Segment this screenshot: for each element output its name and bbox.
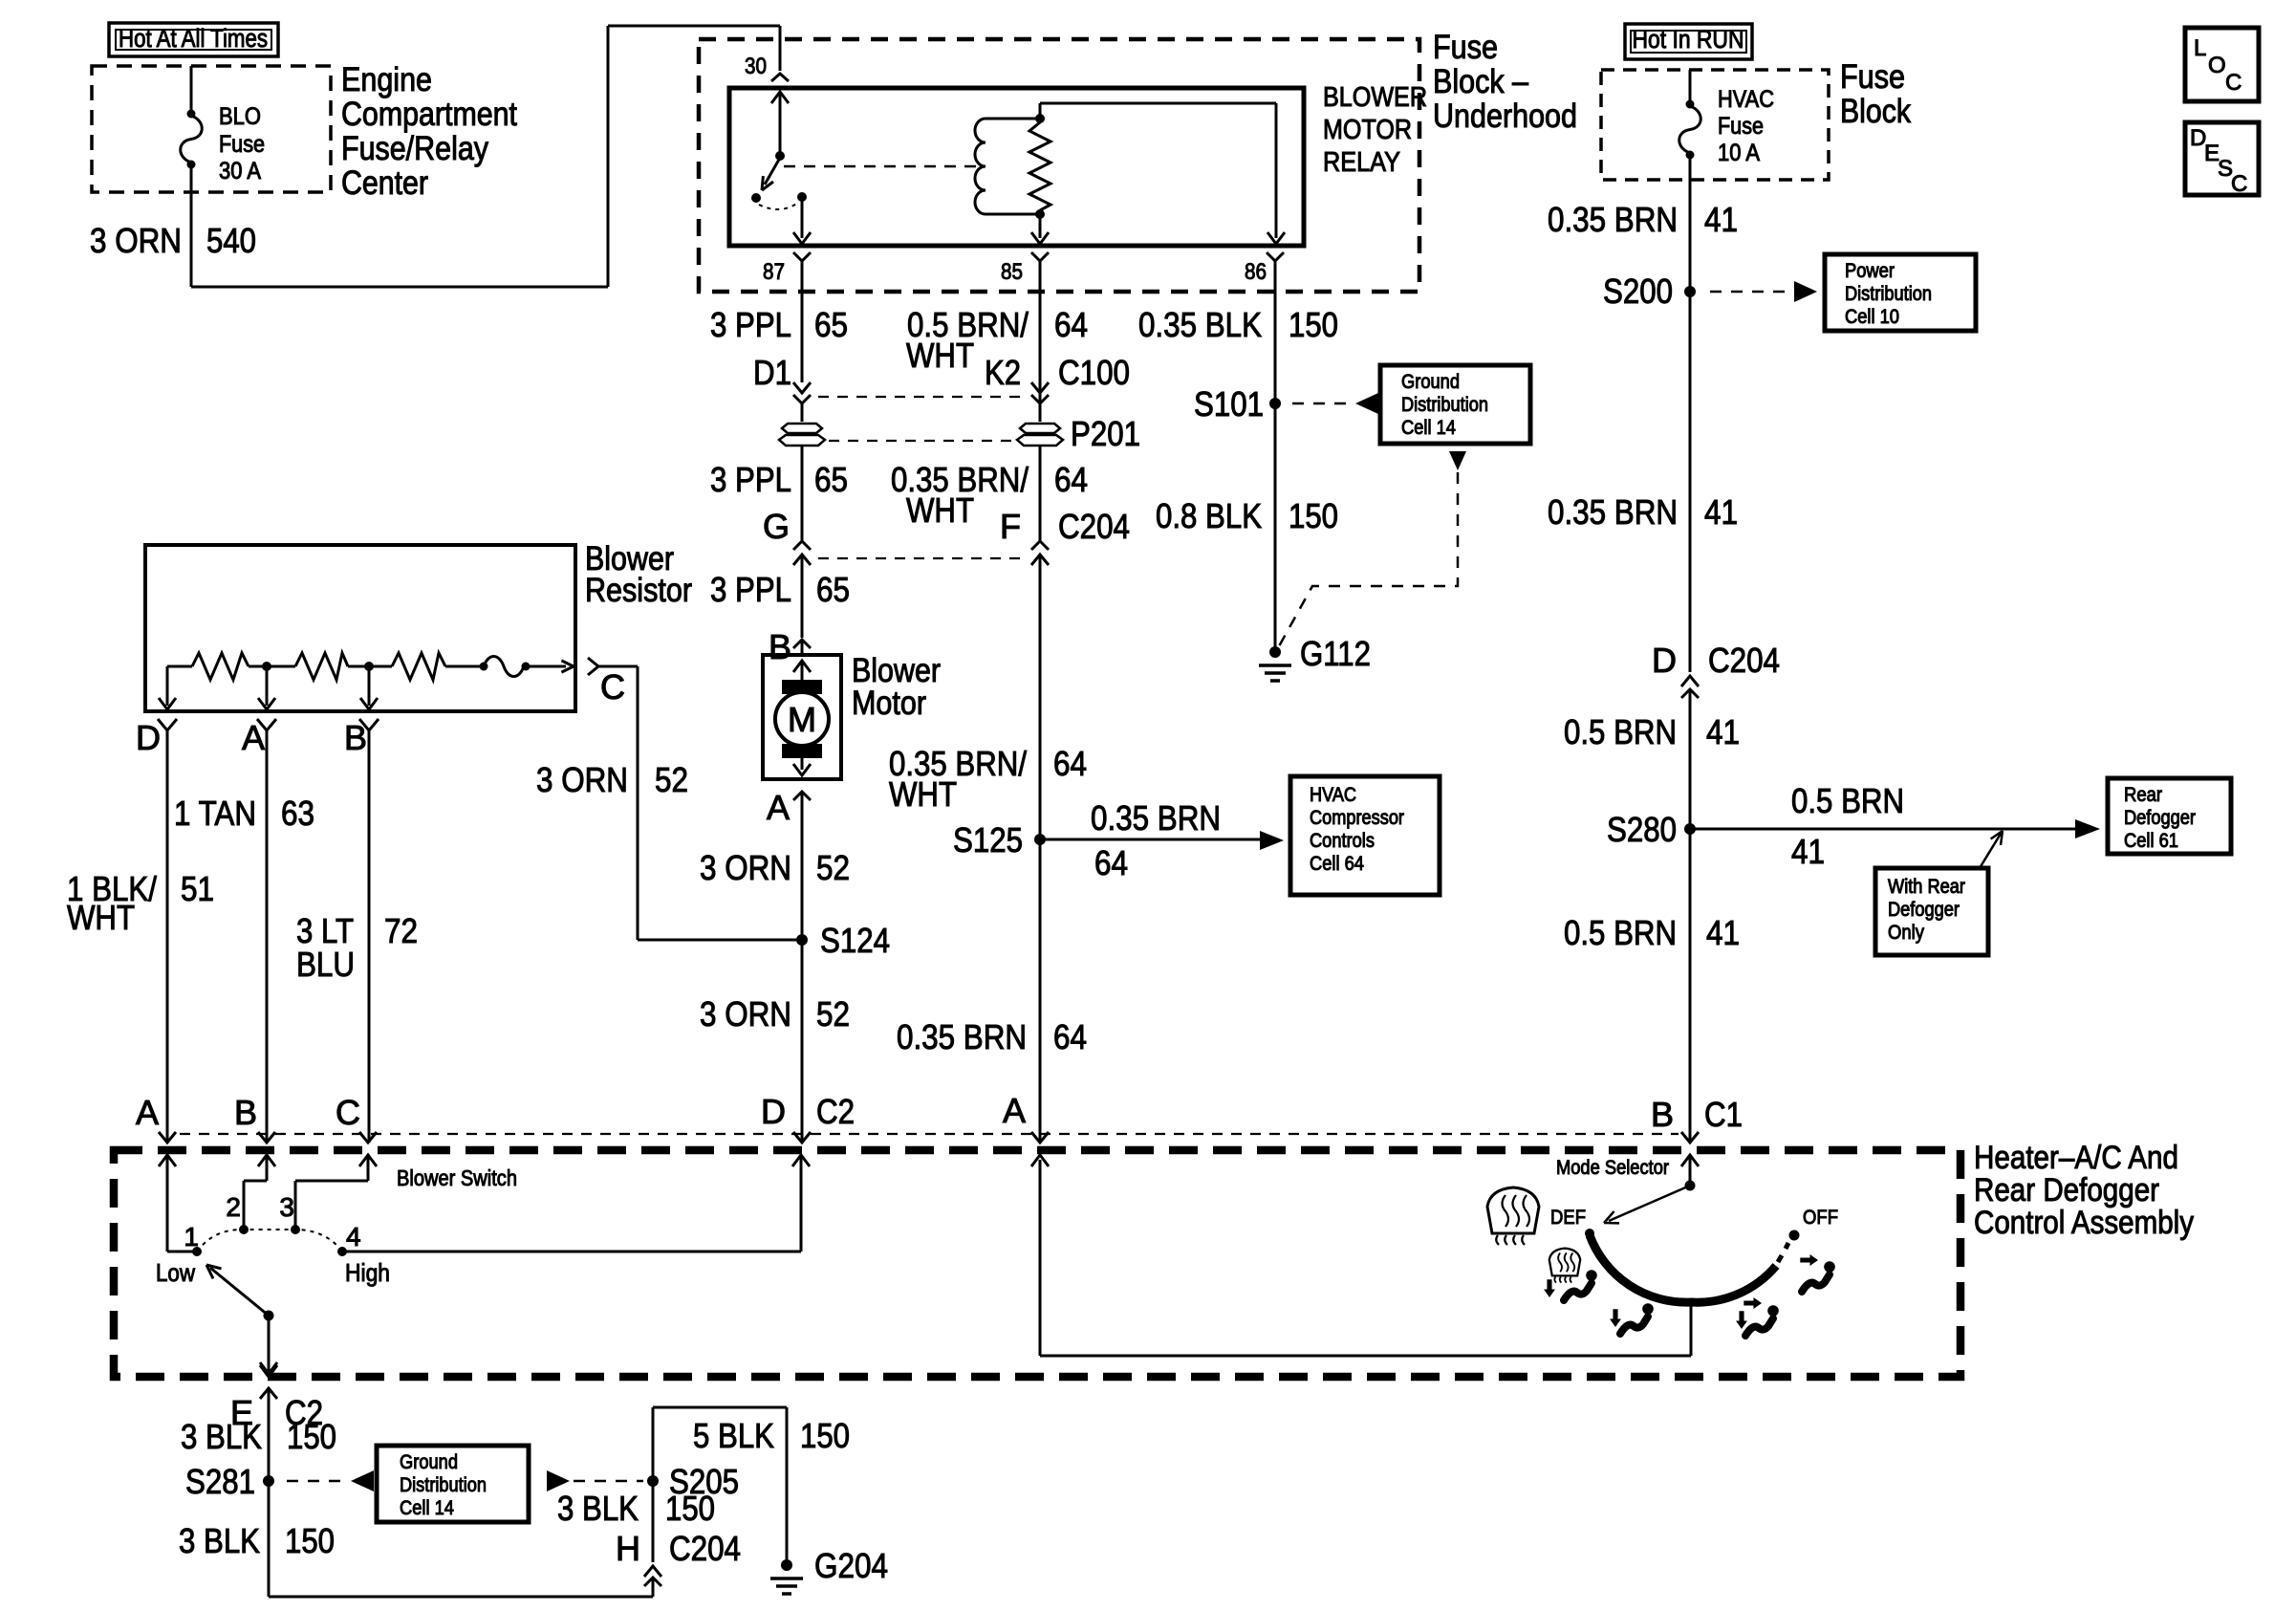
- svg-text:Rear Defogger: Rear Defogger: [1974, 1172, 2159, 1208]
- svg-text:Fuse: Fuse: [1433, 29, 1498, 66]
- svg-text:Mode Selector: Mode Selector: [1556, 1157, 1669, 1179]
- svg-text:C204: C204: [1708, 641, 1780, 680]
- svg-text:H: H: [616, 1529, 640, 1568]
- svg-text:Block: Block: [1840, 93, 1911, 130]
- svg-text:S101: S101: [1194, 384, 1264, 424]
- svg-text:3 BLK: 3 BLK: [179, 1521, 260, 1560]
- svg-text:C204: C204: [669, 1529, 741, 1568]
- svg-text:0.35 BRN: 0.35 BRN: [1091, 798, 1221, 838]
- svg-text:S124: S124: [820, 921, 890, 960]
- svg-text:Fuse: Fuse: [1840, 58, 1905, 96]
- svg-text:150: 150: [1289, 305, 1338, 344]
- svg-text:Cell 10: Cell 10: [1845, 306, 1899, 328]
- svg-text:3 PPL: 3 PPL: [710, 570, 791, 609]
- svg-text:Resistor: Resistor: [585, 572, 692, 609]
- svg-text:K2: K2: [985, 353, 1021, 392]
- svg-text:150: 150: [1289, 496, 1338, 535]
- svg-text:Cell 61: Cell 61: [2124, 830, 2178, 852]
- svg-text:Blower Switch: Blower Switch: [397, 1165, 517, 1190]
- svg-text:OFF: OFF: [1803, 1207, 1838, 1229]
- svg-text:DEF: DEF: [1550, 1207, 1586, 1229]
- svg-text:41: 41: [1706, 913, 1740, 952]
- svg-text:A: A: [242, 718, 265, 757]
- svg-text:85: 85: [1001, 259, 1023, 285]
- svg-text:Block –: Block –: [1433, 63, 1528, 100]
- svg-text:1: 1: [184, 1222, 199, 1252]
- svg-text:0.5 BRN: 0.5 BRN: [1564, 712, 1677, 751]
- svg-text:Heater–A/C And: Heater–A/C And: [1974, 1140, 2178, 1176]
- svg-text:63: 63: [281, 794, 314, 833]
- svg-text:3 ORN: 3 ORN: [700, 994, 791, 1034]
- svg-text:C204: C204: [1058, 507, 1130, 546]
- svg-text:540: 540: [206, 221, 256, 260]
- svg-text:Hot At All Times: Hot At All Times: [119, 24, 268, 53]
- svg-text:3 PPL: 3 PPL: [710, 305, 791, 344]
- svg-text:Distribution: Distribution: [1845, 283, 1932, 305]
- svg-text:RELAY: RELAY: [1323, 147, 1400, 178]
- svg-text:Rear: Rear: [2124, 784, 2162, 806]
- svg-text:1 TAN: 1 TAN: [174, 794, 256, 833]
- svg-text:C: C: [336, 1093, 360, 1132]
- svg-text:Engine: Engine: [341, 61, 432, 98]
- svg-text:3 ORN: 3 ORN: [536, 760, 628, 799]
- svg-text:0.35 BRN: 0.35 BRN: [1548, 492, 1678, 532]
- svg-text:64: 64: [1094, 843, 1128, 882]
- svg-text:3 PPL: 3 PPL: [710, 460, 791, 499]
- svg-text:3 BLK: 3 BLK: [557, 1489, 639, 1528]
- svg-text:WHT: WHT: [67, 898, 135, 937]
- svg-text:Defogger: Defogger: [2124, 807, 2196, 829]
- svg-text:D: D: [136, 718, 161, 757]
- svg-text:3: 3: [279, 1192, 294, 1222]
- svg-text:3 ORN: 3 ORN: [700, 848, 791, 887]
- svg-text:WHT: WHT: [889, 774, 957, 814]
- svg-text:Compressor: Compressor: [1310, 807, 1404, 829]
- svg-text:S281: S281: [185, 1462, 255, 1501]
- svg-text:41: 41: [1791, 832, 1825, 871]
- svg-text:0.35 BRN: 0.35 BRN: [897, 1017, 1027, 1056]
- svg-text:MOTOR: MOTOR: [1323, 115, 1412, 145]
- svg-text:Underhood: Underhood: [1433, 98, 1577, 135]
- svg-text:52: 52: [655, 760, 688, 799]
- svg-text:0.8 BLK: 0.8 BLK: [1156, 496, 1262, 535]
- svg-text:G: G: [763, 507, 790, 546]
- svg-text:Control Assembly: Control Assembly: [1974, 1205, 2194, 1241]
- svg-text:Distribution: Distribution: [1401, 394, 1488, 416]
- svg-text:BLOWER: BLOWER: [1323, 82, 1427, 113]
- svg-text:C2: C2: [816, 1092, 855, 1131]
- svg-text:S200: S200: [1603, 272, 1673, 311]
- svg-text:Power: Power: [1845, 260, 1895, 282]
- svg-text:F: F: [1000, 507, 1021, 546]
- svg-text:3 BLK: 3 BLK: [181, 1417, 262, 1456]
- svg-text:Center: Center: [341, 164, 428, 202]
- svg-text:65: 65: [814, 460, 848, 499]
- svg-text:150: 150: [800, 1416, 850, 1455]
- svg-text:Low: Low: [156, 1258, 195, 1287]
- svg-text:2: 2: [226, 1192, 241, 1222]
- svg-text:65: 65: [816, 570, 850, 609]
- svg-text:G204: G204: [814, 1546, 888, 1585]
- svg-text:HVAC: HVAC: [1718, 86, 1774, 113]
- svg-text:Fuse/Relay: Fuse/Relay: [341, 130, 488, 167]
- svg-text:B: B: [1651, 1095, 1674, 1134]
- svg-text:86: 86: [1245, 259, 1267, 285]
- svg-text:S125: S125: [953, 820, 1023, 860]
- svg-text:Hot In RUN: Hot In RUN: [1633, 25, 1744, 54]
- svg-text:41: 41: [1704, 200, 1738, 239]
- svg-text:D1: D1: [753, 353, 791, 392]
- svg-text:3 ORN: 3 ORN: [90, 221, 182, 260]
- svg-text:41: 41: [1706, 712, 1740, 751]
- svg-text:P201: P201: [1071, 414, 1140, 453]
- svg-text:Motor: Motor: [852, 685, 926, 722]
- svg-text:L: L: [2194, 35, 2206, 61]
- svg-text:0.5 BRN: 0.5 BRN: [1564, 913, 1677, 952]
- svg-text:52: 52: [816, 848, 850, 887]
- svg-text:10 A: 10 A: [1718, 140, 1760, 166]
- svg-text:64: 64: [1054, 305, 1088, 344]
- svg-text:Controls: Controls: [1310, 830, 1375, 852]
- svg-text:A: A: [136, 1093, 159, 1132]
- svg-text:WHT: WHT: [906, 490, 974, 530]
- svg-text:64: 64: [1054, 460, 1088, 499]
- svg-text:30: 30: [745, 54, 767, 79]
- svg-text:51: 51: [181, 869, 214, 908]
- svg-text:C100: C100: [1058, 353, 1130, 392]
- svg-text:C: C: [2231, 171, 2247, 197]
- svg-text:M: M: [788, 700, 816, 739]
- svg-text:Compartment: Compartment: [341, 96, 517, 133]
- svg-text:150: 150: [287, 1417, 336, 1456]
- svg-text:With Rear: With Rear: [1888, 876, 1965, 898]
- svg-text:0.35 BLK: 0.35 BLK: [1138, 305, 1262, 344]
- svg-text:52: 52: [816, 994, 850, 1034]
- svg-text:High: High: [345, 1258, 390, 1287]
- svg-text:G112: G112: [1300, 634, 1371, 673]
- svg-text:A: A: [1003, 1091, 1026, 1130]
- svg-text:O: O: [2208, 53, 2226, 78]
- svg-text:72: 72: [384, 911, 418, 950]
- svg-text:150: 150: [285, 1521, 335, 1560]
- svg-text:C: C: [600, 667, 625, 707]
- svg-text:4: 4: [346, 1222, 361, 1252]
- svg-text:D: D: [761, 1092, 786, 1131]
- svg-text:WHT: WHT: [906, 336, 974, 375]
- svg-text:Cell 64: Cell 64: [1310, 853, 1364, 875]
- svg-text:B: B: [344, 718, 367, 757]
- svg-text:65: 65: [814, 305, 848, 344]
- svg-text:Ground: Ground: [400, 1451, 458, 1473]
- svg-text:Fuse: Fuse: [219, 131, 265, 158]
- svg-text:0.5 BRN: 0.5 BRN: [1791, 781, 1904, 820]
- svg-text:BLO: BLO: [219, 103, 261, 130]
- svg-text:Ground: Ground: [1401, 371, 1460, 393]
- svg-text:0.35 BRN: 0.35 BRN: [1548, 200, 1678, 239]
- svg-text:BLU: BLU: [296, 945, 355, 984]
- svg-text:150: 150: [665, 1489, 715, 1528]
- svg-text:87: 87: [763, 259, 785, 285]
- svg-text:64: 64: [1053, 744, 1087, 783]
- svg-text:Only: Only: [1888, 922, 1924, 944]
- svg-text:C: C: [2225, 70, 2242, 96]
- svg-text:Cell 14: Cell 14: [1401, 417, 1456, 439]
- svg-text:B: B: [234, 1093, 257, 1132]
- svg-text:5 BLK: 5 BLK: [693, 1416, 774, 1455]
- svg-text:Defogger: Defogger: [1888, 899, 1960, 921]
- svg-text:64: 64: [1053, 1017, 1087, 1056]
- svg-text:A: A: [767, 788, 790, 827]
- svg-text:Distribution: Distribution: [400, 1474, 487, 1496]
- svg-text:Fuse: Fuse: [1718, 113, 1764, 140]
- svg-text:D: D: [1652, 641, 1677, 680]
- svg-text:Cell 14: Cell 14: [400, 1497, 454, 1519]
- svg-text:B: B: [769, 627, 791, 666]
- svg-text:41: 41: [1704, 492, 1738, 532]
- svg-text:S280: S280: [1607, 810, 1677, 849]
- svg-text:C1: C1: [1704, 1095, 1743, 1134]
- svg-text:30 A: 30 A: [219, 158, 261, 185]
- svg-text:HVAC: HVAC: [1310, 784, 1356, 806]
